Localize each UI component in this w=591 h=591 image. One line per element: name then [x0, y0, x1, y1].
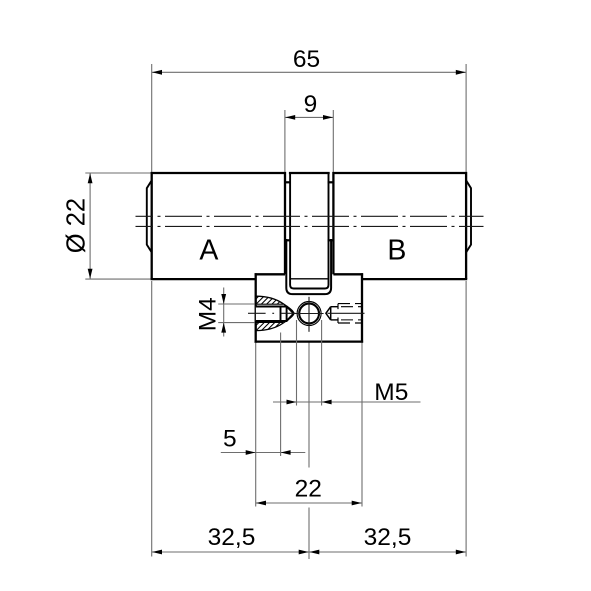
left end cap (chamfered): [147, 180, 152, 252]
M5 dimension line with leader: [273, 401, 421, 403]
svg-text:B: B: [387, 235, 406, 267]
right end cap (chamfered): [466, 180, 471, 252]
cam housing box top edge right segment: [333, 273, 363, 275]
9 dimension: extension line left: [284, 110, 286, 172]
hatching: [214, 290, 334, 336]
svg-text:Ø 22: Ø 22: [63, 198, 91, 253]
M5 thread outer circle: [297, 302, 321, 326]
plug axis centre line: [136, 215, 484, 217]
M5 screw cone base: [330, 307, 332, 320]
svg-text:9: 9: [304, 91, 318, 118]
M5 screw neck bottom: [331, 319, 338, 321]
M4 cone base edge: [286, 307, 288, 322]
svg-text:A: A: [199, 234, 218, 266]
M5 screw cone point: [326, 307, 331, 320]
cam housing box right edge: [361, 273, 363, 343]
body axis centre line: [136, 225, 484, 227]
M5 hole horizontal crosshair: [294, 313, 324, 315]
cam housing box bottom edge: [255, 340, 364, 342]
svg-text:32,5: 32,5: [208, 524, 256, 551]
svg-text:M5: M5: [374, 379, 408, 406]
svg-text:22: 22: [295, 475, 322, 502]
32,5 left dimension line: [152, 551, 309, 553]
M4 axis centre line: [248, 312, 296, 314]
clip lower left connector bar: [284, 239, 291, 241]
cylinder body half A outline: [152, 173, 285, 279]
32,5 dimension: extension line right: [465, 281, 467, 557]
5 dimension line: [221, 452, 305, 454]
clip upper left connector bar: [284, 181, 291, 183]
bridge clip inner bottom line: [291, 278, 328, 280]
M5 hole vertical crosshair: [308, 297, 310, 332]
M4 thread crest line bottom: [256, 321, 283, 323]
22 dimension line: [256, 502, 362, 504]
32,5 dimension: extension line left: [151, 281, 153, 557]
M5 screw thread minor bottom (hidden): [338, 319, 362, 321]
cam housing box fill: [256, 274, 362, 341]
M4 thread crest line top: [256, 303, 283, 305]
box left edge extension line: [255, 343, 257, 507]
bridge clip outer U strap: [286, 239, 331, 294]
M5 screw thread minor top (hidden): [338, 306, 362, 308]
M5 screw thread major bottom (hidden): [338, 322, 362, 324]
M5 hole inner circle: [299, 304, 319, 324]
svg-text:M4: M4: [194, 297, 221, 331]
cam housing box left edge: [255, 273, 257, 343]
cylinder body half B bottom edge (visible part): [362, 278, 467, 280]
bridge clip inner U outline: [290, 173, 328, 289]
9 dimension: extension line right: [332, 110, 334, 172]
M4 dimension line: [223, 288, 225, 337]
65 dimension line: [152, 71, 466, 73]
centre extension line (lower segment): [308, 508, 310, 560]
9 dimension line: [285, 116, 333, 118]
clip upper right connector bar: [328, 181, 335, 183]
M4 dimension: extension line bottom: [218, 322, 255, 324]
svg-text:5: 5: [223, 426, 237, 453]
M5 screw axis centre line: [328, 312, 365, 314]
65 dimension: extension line left: [151, 64, 153, 172]
cylinder body half B outline: [333, 173, 466, 279]
diameter 22 dimension line: [89, 173, 91, 279]
bridge clip top edge: [289, 172, 330, 174]
M5 hole right extension line: [321, 320, 323, 406]
M5 screw thread major top (hidden): [338, 303, 362, 305]
box right edge extension line: [361, 343, 363, 507]
cylinder body half A bottom edge (visible part): [151, 278, 256, 280]
centre extension line (upper segment): [308, 297, 310, 468]
M5 screw neck top: [331, 306, 338, 308]
M4 thread hole white core: [256, 304, 293, 322]
svg-text:65: 65: [293, 46, 320, 73]
32,5 right dimension line: [309, 551, 466, 553]
M4 screw end face: [280, 306, 282, 322]
svg-text:32,5: 32,5: [364, 524, 412, 551]
cam housing box top edge left segment: [255, 273, 285, 275]
diameter 22 dimension: extension line bottom: [85, 278, 151, 280]
M4 set screw body and cone point outline: [256, 307, 294, 322]
M4 screw end face extension line: [280, 333, 282, 457]
M4 dimension: extension line top: [218, 303, 255, 305]
65 dimension: extension line right: [465, 64, 467, 172]
M5 screw shoulder (hidden): [337, 304, 339, 323]
clip lower right connector bar: [328, 239, 335, 241]
M5 hole left extension line: [296, 320, 298, 406]
diameter 22 dimension: extension line top: [85, 172, 151, 174]
